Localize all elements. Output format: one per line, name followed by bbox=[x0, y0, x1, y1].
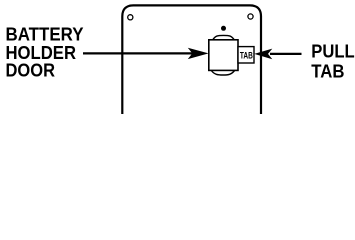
battery door top grip arc bbox=[213, 35, 235, 40]
svg-text:BATTERY: BATTERY bbox=[6, 25, 84, 45]
right arrowhead bbox=[254, 49, 272, 60]
remote control back outline bbox=[122, 5, 261, 114]
svg-text:TAB: TAB bbox=[240, 50, 253, 60]
indicator dot bbox=[221, 26, 226, 31]
battery holder door bbox=[209, 40, 238, 71]
left arrowhead bbox=[188, 48, 209, 59]
battery door bottom grip arc bbox=[211, 71, 234, 76]
right leader line bbox=[270, 53, 302, 55]
left leader line bbox=[83, 52, 194, 54]
svg-text:DOOR: DOOR bbox=[6, 61, 56, 81]
svg-text:TAB: TAB bbox=[311, 62, 344, 82]
svg-text:PULL: PULL bbox=[311, 41, 354, 61]
screw hole right bbox=[248, 14, 253, 19]
screw hole left bbox=[128, 15, 133, 20]
pull tab box bbox=[238, 47, 254, 63]
